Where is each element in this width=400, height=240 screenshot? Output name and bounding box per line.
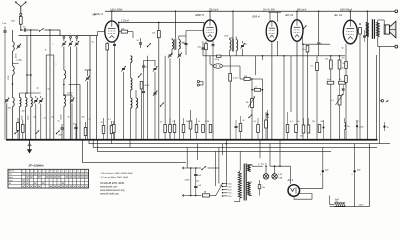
switch arrow near pot <box>248 117 249 118</box>
switch osc contact <box>147 46 148 47</box>
fuse 1A <box>203 194 210 197</box>
svg-text:SCHAUB ETR 4039: SCHAUB ETR 4039 <box>100 181 125 185</box>
svg-text:7: 7 <box>81 171 82 173</box>
IF transformer 2 core <box>231 39 233 52</box>
resistor bus 296 <box>295 125 298 133</box>
svg-text:90k,6mA: 90k,6mA <box>297 8 307 11</box>
wire drop x226 <box>225 140 227 186</box>
resistor bus 169 <box>169 125 172 133</box>
capacitor 50n <box>74 126 77 128</box>
resistor bus 113 <box>113 125 116 133</box>
resistor bus 103 <box>102 126 105 134</box>
terminal output top right <box>395 10 398 13</box>
terminal antenna <box>20 13 22 15</box>
svg-text:Bereich: Bereich <box>9 170 15 173</box>
svg-text:7: 7 <box>46 171 47 173</box>
volume potentiometer <box>251 99 254 108</box>
junction dots AF rail <box>330 55 332 57</box>
wire V1 cathode parts <box>106 44 109 51</box>
resistor bus 111 <box>110 126 113 134</box>
wire gang drops <box>63 35 65 38</box>
capacitor 50 mid lower <box>142 90 145 92</box>
wire stub grid coils <box>27 74 31 76</box>
wire drop x222 <box>222 144 224 156</box>
svg-text:50k: 50k <box>321 121 324 123</box>
wire V1 plate to rail <box>111 11 113 21</box>
wire stub top divider <box>46 54 54 56</box>
capacitor osc coupling <box>139 42 142 44</box>
svg-text:Mittel: Mittel <box>9 176 14 179</box>
svg-text:4p: 4p <box>37 88 39 90</box>
resistor 50k screen <box>157 31 160 38</box>
wire ground tap mains <box>196 180 199 182</box>
resistor bus 165 <box>164 125 167 133</box>
IF transformer 2 secondary <box>236 40 238 51</box>
svg-text:ZF=100kHz: ZF=100kHz <box>28 163 45 167</box>
ground symbol <box>29 140 31 147</box>
switch contact row 1 <box>14 133 15 134</box>
wire V5 plate to rail <box>349 11 351 20</box>
speaker <box>384 25 389 34</box>
capacitor bus 235 <box>235 125 238 127</box>
tube V2 EBF9 <box>203 20 216 41</box>
svg-text:25k: 25k <box>342 58 345 60</box>
svg-text:50: 50 <box>243 120 245 122</box>
svg-text:25k: 25k <box>312 121 315 123</box>
output transformer secondary <box>377 22 380 36</box>
wire vertical divider 3 <box>53 55 55 140</box>
resistor 0,5M det second <box>254 88 260 91</box>
variable capacitor gang 1 <box>63 38 65 41</box>
wire antenna coil down <box>12 51 14 66</box>
wire speaker return <box>378 46 395 48</box>
svg-text:4: 4 <box>34 171 35 173</box>
terminal gang 3 <box>76 36 78 38</box>
mains RC filter vertical <box>190 168 192 196</box>
tube V1 ECH4 <box>105 21 119 42</box>
resistor EM4 grid <box>265 120 268 128</box>
terminal gang 2 <box>70 36 72 38</box>
wire rail D <box>83 140 187 163</box>
svg-text:0,1M: 0,1M <box>205 121 210 123</box>
IF transformer 2 primary <box>230 40 232 51</box>
terminal gang 1 <box>63 36 65 38</box>
svg-text:1: 1 <box>58 171 59 173</box>
resistor bus 196 <box>195 125 198 133</box>
wire rail drop IF2 <box>232 11 234 38</box>
svg-text:10000: 10000 <box>61 114 63 120</box>
wire V2 plate to rail <box>209 11 211 20</box>
trimmer antenna <box>17 45 20 47</box>
dial lamp 1 <box>263 174 268 179</box>
wire lamps to rectifier <box>290 166 292 184</box>
resistor bus 174 <box>173 125 176 133</box>
svg-text:EL 11: EL 11 <box>335 13 343 17</box>
svg-text:4: 4 <box>70 171 71 173</box>
wire drop 280 <box>279 140 281 166</box>
resistor bus 303 cluster <box>302 125 305 133</box>
dial lamp oval <box>213 64 222 68</box>
svg-text:Lang: Lang <box>9 180 13 182</box>
coil antenna band upper <box>13 66 15 75</box>
trimmer padder b <box>154 67 157 69</box>
svg-text:5k: 5k <box>342 48 344 50</box>
svg-text:10n: 10n <box>262 187 265 189</box>
terminal output bottom right <box>395 45 398 48</box>
capacitor electrolytic 267 <box>266 113 268 115</box>
coil padder column a <box>131 56 133 63</box>
wire V2 grid left <box>186 30 203 32</box>
svg-text:10n: 10n <box>302 49 305 51</box>
variable capacitor gang 3 <box>76 38 78 41</box>
resistor 0,1M det <box>229 74 232 82</box>
power transformer primary <box>238 172 241 198</box>
wire V5 down <box>345 44 347 140</box>
trimmer bandset 1 <box>34 99 37 101</box>
wire AZ1 lower loop <box>294 194 312 200</box>
capacitor grid 100 <box>185 42 188 44</box>
mains plug lower prong <box>182 194 186 196</box>
coil set LW MW <box>20 98 22 107</box>
wire detector rail <box>203 55 345 57</box>
trimmer IF1 b <box>178 54 181 56</box>
svg-text:230V: 230V <box>359 205 364 207</box>
resistor bus 183 <box>182 125 185 133</box>
switch contact row 3 <box>56 133 57 134</box>
trimmer padder a <box>122 67 125 69</box>
dial lamp 2 <box>272 174 277 179</box>
coil padder column b <box>136 98 138 108</box>
wire EM4 right drop <box>277 41 279 56</box>
capacitor V1 cathode <box>113 43 116 45</box>
capacitor 25p det <box>202 47 205 49</box>
capacitor 10n hum <box>258 185 261 189</box>
capacitor 5nF upper <box>194 173 197 175</box>
wire drop x219 <box>218 147 220 183</box>
wire V1 left grid <box>98 31 105 33</box>
capacitor 5n <box>317 42 320 44</box>
wire right feed a <box>379 47 381 144</box>
coil band 2 <box>13 98 15 107</box>
wire to field coil <box>354 171 356 206</box>
svg-text:100: 100 <box>182 42 185 44</box>
svg-text:5: 5 <box>38 171 39 173</box>
resistor bus 258 <box>257 125 260 133</box>
svg-text:0,1M: 0,1M <box>233 78 238 80</box>
resistor V5 grid leak <box>345 76 348 83</box>
svg-text:0,1: 0,1 <box>356 121 359 123</box>
svg-text:0,1: 0,1 <box>173 121 176 123</box>
capacitor 1uF right <box>356 125 358 127</box>
svg-text:300: 300 <box>82 117 85 119</box>
svg-text:1M: 1M <box>325 59 328 61</box>
power transformer core <box>243 164 245 201</box>
wire mid verticals <box>147 56 149 140</box>
wire drop x322 <box>322 147 324 171</box>
svg-text:a+ (6 x 3): a+ (6 x 3) <box>258 164 267 166</box>
svg-text:EBF 9: EBF 9 <box>196 13 205 17</box>
wire heater drop 130 <box>129 140 131 148</box>
wire heater rail A <box>89 140 390 144</box>
switch arm lower <box>160 105 161 106</box>
wire stub padder <box>64 94 72 96</box>
svg-text:60: 60 <box>68 117 70 119</box>
antenna <box>20 7 22 14</box>
trimmer bandset 2 <box>39 99 42 101</box>
svg-text:5: 5 <box>74 171 75 173</box>
svg-text:50: 50 <box>34 117 36 119</box>
svg-text:EM 4: EM 4 <box>253 15 260 19</box>
wire drop x240 <box>239 151 241 170</box>
power transformer heater winding <box>248 165 251 172</box>
IF transformer 1 secondary <box>179 40 181 50</box>
trimmer oscillator <box>86 77 89 79</box>
resistor AVC 1 <box>17 123 20 131</box>
switch wave band contact <box>39 30 40 31</box>
pickup jack right <box>381 100 383 102</box>
svg-text:0,1: 0,1 <box>290 121 293 123</box>
svg-text:0,1: 0,1 <box>108 119 111 121</box>
svg-text:50k: 50k <box>300 136 303 138</box>
trimmer padder c <box>154 92 157 94</box>
svg-text:2M: 2M <box>59 135 62 137</box>
V2 cathode resistor <box>205 44 208 50</box>
voltage selector taps <box>223 183 228 185</box>
wire grid line 1 <box>26 36 28 93</box>
capacitor V5 bypass <box>342 88 345 90</box>
trimmer band2 <box>5 99 8 101</box>
svg-text:30: 30 <box>92 42 94 44</box>
svg-text:2k: 2k <box>160 122 162 124</box>
capacitor 10n tone b <box>339 81 346 84</box>
wire vertical divider 1 <box>45 55 47 140</box>
svg-text:5n: 5n <box>298 121 300 123</box>
svg-text:50: 50 <box>48 89 50 91</box>
svg-text:220V: 220V <box>185 180 191 182</box>
wire rail drop x318 <box>318 11 320 42</box>
V5 cathode cap <box>363 35 366 37</box>
capacitor antenna shunt <box>3 30 6 32</box>
phono jack <box>197 80 199 82</box>
coil antenna primary <box>12 30 14 42</box>
resistor bus 287 <box>286 125 289 133</box>
svg-text:50: 50 <box>101 122 103 124</box>
capacitor 10n V4 plate <box>306 46 309 53</box>
capacitor 50p mid <box>142 65 145 67</box>
capacitor 2M <box>60 127 63 129</box>
selector switch arm <box>216 185 223 197</box>
tube V6 AZ1 rectifier <box>288 185 300 197</box>
wire rail C <box>98 140 332 152</box>
wire drop x354 <box>354 144 356 172</box>
svg-text:50: 50 <box>58 121 60 123</box>
wire heater line to lamps <box>251 165 253 167</box>
svg-text:1: 1 <box>22 171 23 173</box>
wire V4 cathode <box>296 41 298 140</box>
trimmer NFB at V4 <box>303 28 304 29</box>
trimmer oscillator padder <box>71 99 74 101</box>
resistor 50k AF <box>316 63 319 71</box>
resistor IF1 damp <box>189 121 192 129</box>
tube V3 EM4 <box>266 21 277 41</box>
svg-text:2: 2 <box>26 171 27 173</box>
wire right RF verticals <box>89 36 91 140</box>
wire right vertical x376 <box>376 55 378 140</box>
wire RF AVC rail <box>19 35 98 37</box>
wire screen rail end to V2 <box>203 22 205 26</box>
capacitor bus 323 <box>323 127 325 129</box>
ground bus <box>6 139 378 141</box>
svg-text:2k: 2k <box>52 117 54 119</box>
mains switch <box>201 169 202 170</box>
resistor 1M AF <box>329 60 332 69</box>
svg-text:EF 11: EF 11 <box>286 13 294 17</box>
svg-text:50k: 50k <box>186 121 189 123</box>
wire vertical divider 2 <box>49 30 51 140</box>
wire B+ rail top <box>105 10 395 12</box>
resistor 5k AF <box>338 60 341 69</box>
svg-text:AZ 1: AZ 1 <box>287 178 294 182</box>
svg-text:50n: 50n <box>73 124 76 126</box>
coil oscillator primary <box>63 48 65 71</box>
table alignment chart <box>8 169 89 188</box>
IF transformer 1 core <box>174 39 176 51</box>
wire heater rail B <box>93 140 377 148</box>
svg-text:30+ 9+ 340: 30+ 9+ 340 <box>263 10 275 12</box>
svg-text:1M: 1M <box>246 102 249 104</box>
resistor bus 203 <box>202 125 205 133</box>
svg-text:2: 2 <box>62 171 63 173</box>
svg-text:0,5: 0,5 <box>254 121 257 123</box>
output transformer primary <box>366 22 369 36</box>
resistor 50k osc grid <box>121 30 127 33</box>
power transformer HV winding <box>248 182 251 196</box>
svg-text:400: 400 <box>22 111 25 113</box>
resistor bus 318 <box>318 125 321 133</box>
svg-text:1M: 1M <box>267 117 270 119</box>
wire stub osc trim <box>86 69 90 71</box>
svg-text:6: 6 <box>78 171 79 173</box>
svg-text:10: 10 <box>89 119 91 121</box>
capacitor antenna coupling 50 <box>24 28 26 31</box>
resistor 4000 pad <box>140 82 143 90</box>
wire field coil feed <box>329 196 331 205</box>
svg-text:5n: 5n <box>321 44 323 46</box>
resistor AVC 2 <box>22 125 25 133</box>
svg-text:10n: 10n <box>347 126 350 128</box>
switch contact row 2 <box>35 133 36 134</box>
wire rectifier output <box>300 187 323 189</box>
tube V5 EL11 <box>343 20 357 44</box>
wire V1 to screen rail <box>118 22 120 28</box>
output transformer core <box>371 19 373 39</box>
svg-text:5k: 5k <box>343 63 345 65</box>
capacitor 5nF lower <box>194 185 197 187</box>
V5 cathode resistor <box>359 28 362 35</box>
wire AF vertical x330 low <box>330 84 332 140</box>
svg-text:3: 3 <box>30 171 31 173</box>
svg-text:Kurz: Kurz <box>9 173 13 176</box>
wire osc grid down <box>132 32 134 38</box>
capacitor right edge <box>383 126 385 128</box>
svg-text:+ 1µF: + 1µF <box>359 127 365 129</box>
resistor bus 240 <box>239 124 242 132</box>
IF transformer 1 primary <box>172 40 174 50</box>
coil oscillator secondary <box>64 95 66 107</box>
svg-text:6-30p: 6-30p <box>17 59 23 61</box>
wire drop x197 <box>197 144 199 160</box>
wire drop x215 <box>215 151 217 186</box>
svg-text:15: 15 <box>45 50 47 52</box>
wire right verticals low <box>368 144 370 207</box>
resistor antenna series <box>20 15 22 16</box>
variable capacitor gang 2 <box>70 38 72 41</box>
mains plug upper prong <box>182 167 186 169</box>
svg-text:10n: 10n <box>327 79 330 81</box>
svg-text:1M: 1M <box>244 76 247 78</box>
resistor 100k bus <box>84 128 87 136</box>
tube V4 EF11 <box>291 20 303 42</box>
wire V4 plate to rail <box>296 11 298 19</box>
wire EM4 cathode down <box>271 41 273 139</box>
svg-text:1,25mA: 1,25mA <box>121 20 129 23</box>
wire V4 coupling <box>303 43 331 45</box>
capacitor 10n tone a <box>327 81 334 84</box>
switch mid contact <box>138 76 139 77</box>
trimmer IF1 a <box>169 54 172 56</box>
table X marks <box>22 171 88 188</box>
wire antenna to band switch <box>20 24 22 30</box>
svg-text:6: 6 <box>42 171 43 173</box>
tone potentiometer <box>338 96 341 106</box>
svg-text:8: 8 <box>85 171 86 173</box>
wire stub ant coil tap <box>13 63 19 65</box>
svg-text:0,1: 0,1 <box>44 118 47 120</box>
wire V1 plate rail corner <box>175 11 177 38</box>
wire drop x270 <box>269 144 271 167</box>
resistor V5 screen <box>345 62 348 69</box>
capacitor 100p <box>217 55 222 57</box>
wire drop x260 <box>259 140 261 159</box>
svg-text:3: 3 <box>66 171 67 173</box>
wire drop x187 <box>186 147 188 168</box>
wire osc feedback <box>69 84 81 86</box>
wire screen rail <box>118 21 204 23</box>
wire IF1 to V2 grid <box>179 35 186 37</box>
svg-text:9: 9 <box>54 171 55 173</box>
wire bottom return <box>330 206 370 208</box>
V2 cathode capacitor <box>212 44 215 46</box>
svg-text:ECH 4: ECH 4 <box>94 12 103 16</box>
svg-text:✶✶ nur ab März 1939: 10pØ: ✶✶ nur ab März 1939: 10pØ <box>100 176 128 179</box>
filter capacitor 2 8uF <box>353 170 355 172</box>
filter capacitor 1 8uF <box>322 170 324 172</box>
svg-text:8: 8 <box>50 171 51 173</box>
coil bus 344 <box>345 123 346 130</box>
svg-text:✶ Bis Februar 1939: 15000+50pF: ✶ Bis Februar 1939: 15000+50pF <box>100 172 133 175</box>
resistor 1M AVC <box>244 78 250 81</box>
wire V4 plate vertical long <box>302 44 304 140</box>
svg-text:5k: 5k <box>198 121 200 123</box>
svg-text:e: e <box>53 44 54 46</box>
trimmer IF2 a <box>241 44 244 46</box>
resistor bus 210 <box>209 125 212 133</box>
wire heater drop 111 <box>111 140 113 144</box>
svg-text:www.tsf-radio.org: www.tsf-radio.org <box>100 193 119 196</box>
wire det rail verticals <box>255 56 257 75</box>
wire det vertical a <box>209 56 211 64</box>
